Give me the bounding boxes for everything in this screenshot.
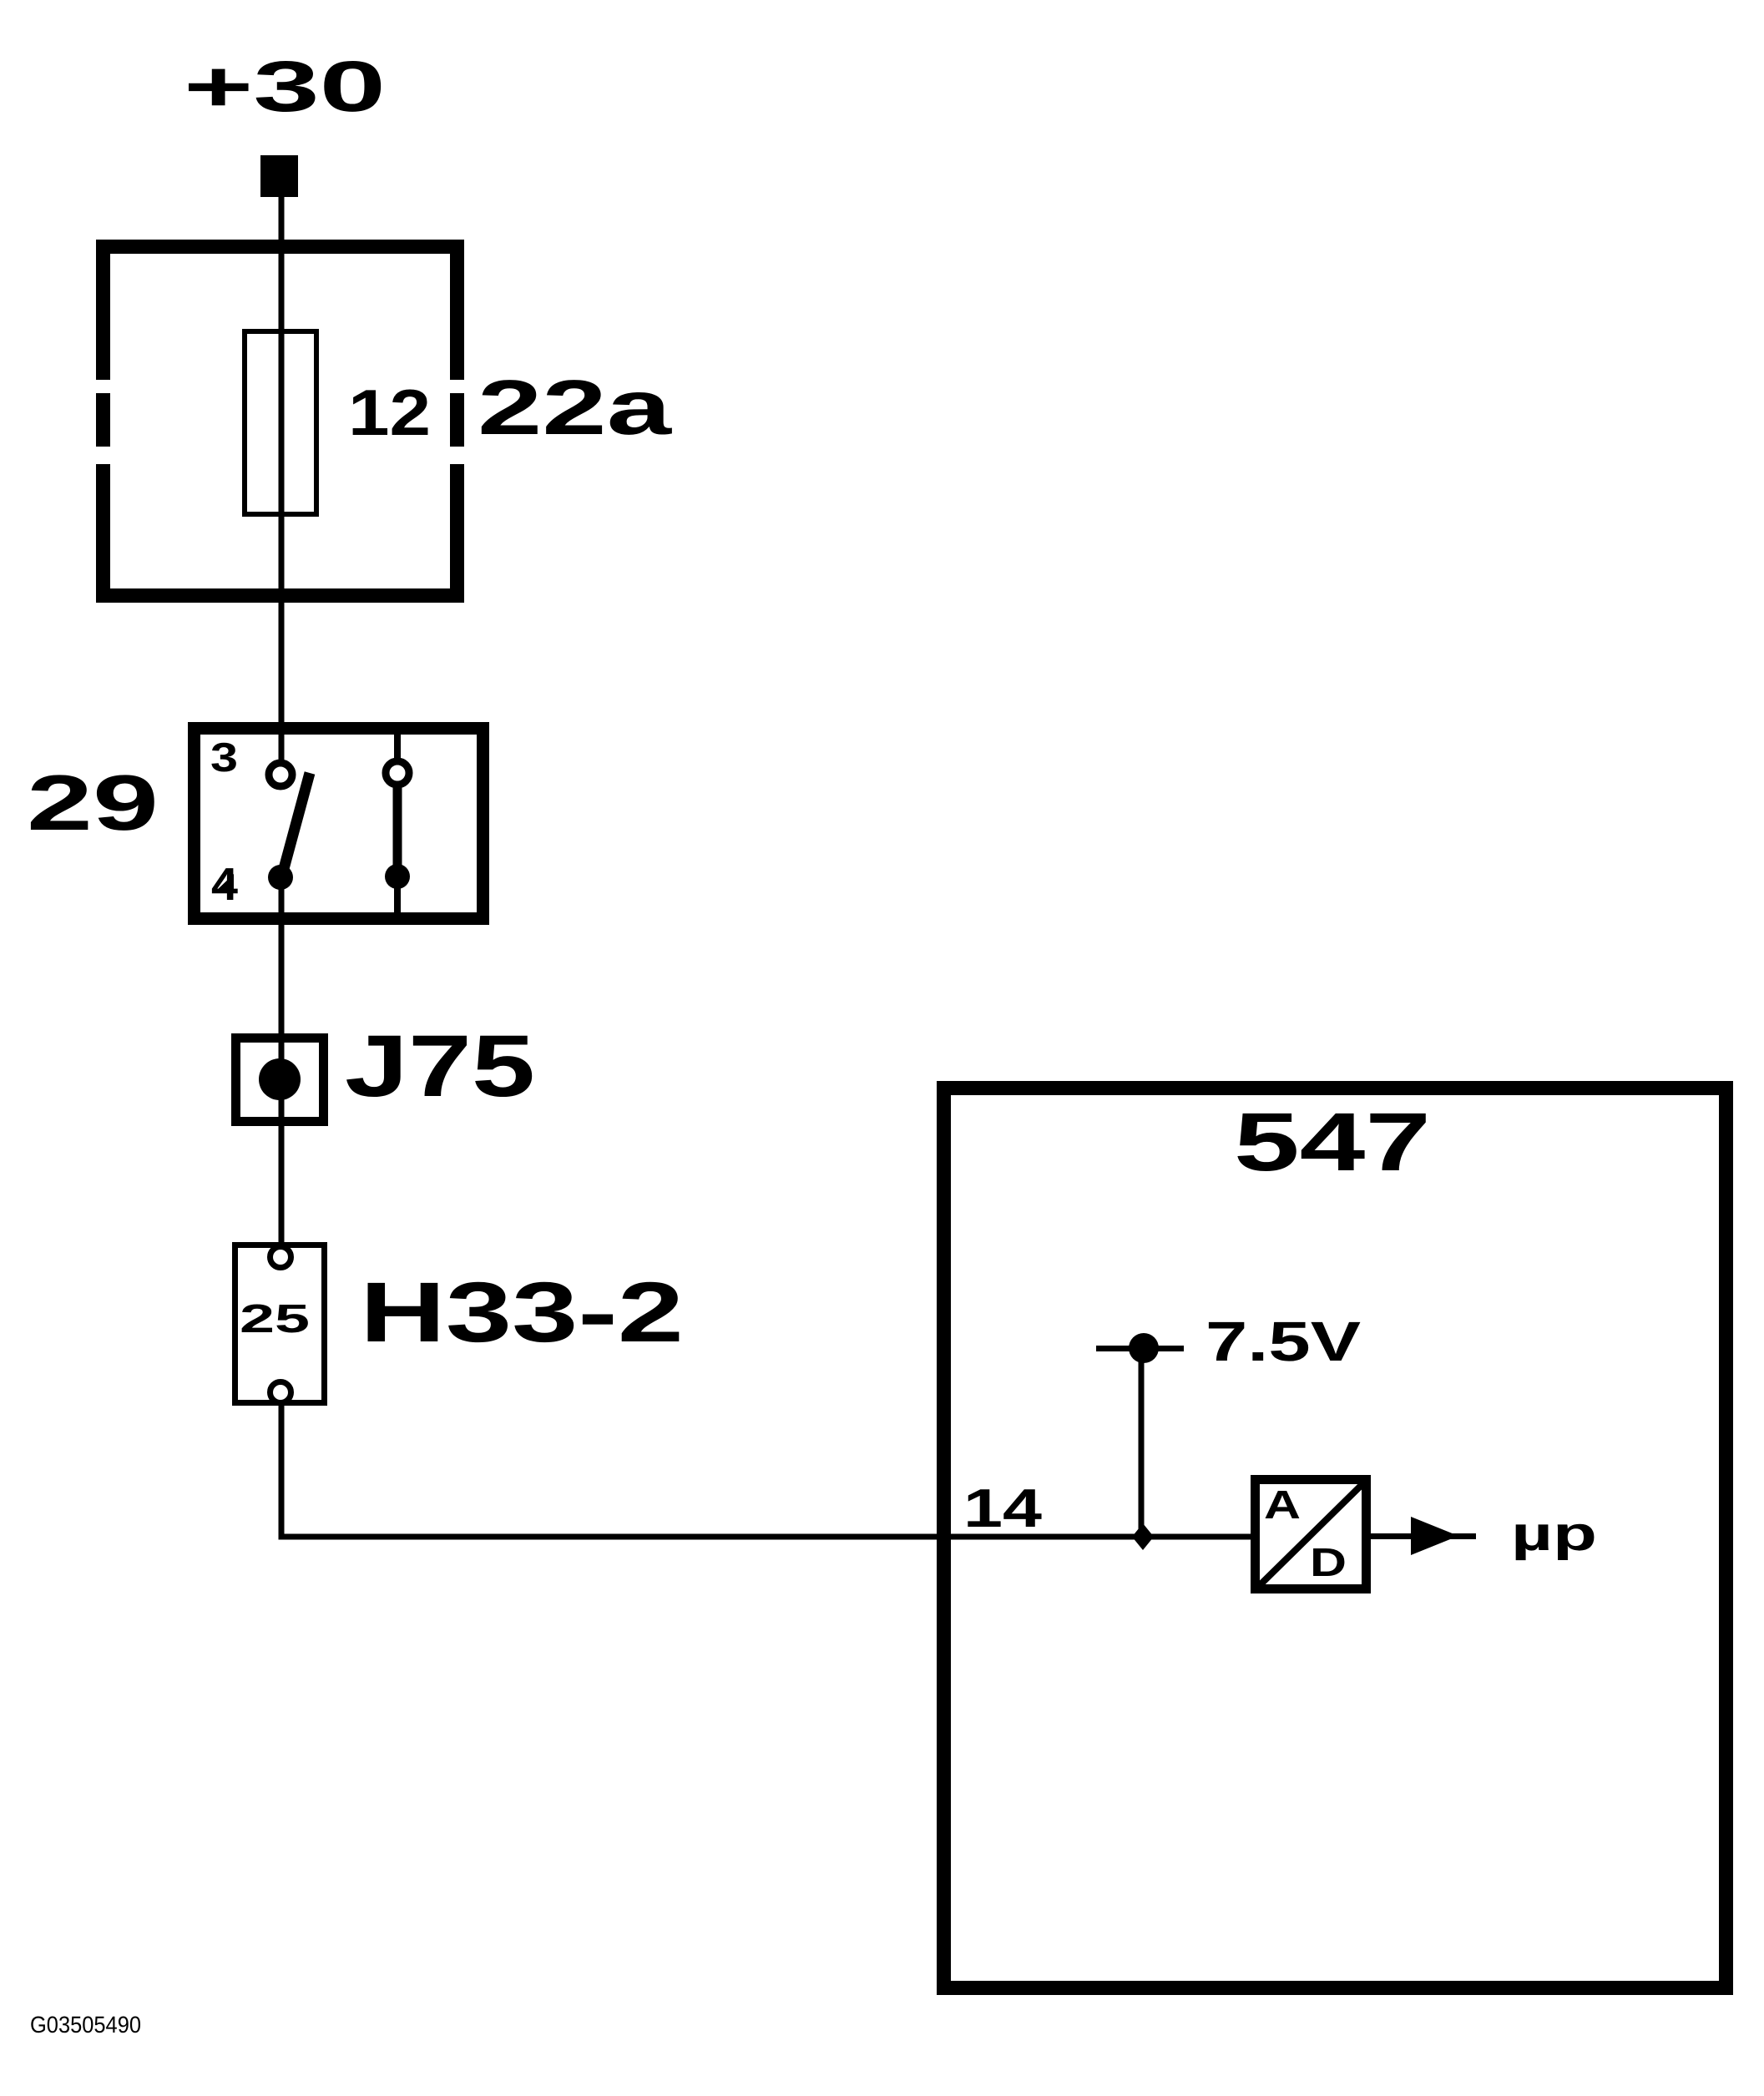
svg-text:25: 25	[240, 1297, 310, 1341]
second pole bottom stub wire	[394, 876, 401, 918]
7.5V supply stub wire	[1096, 1346, 1184, 1351]
svg-text:H33-2: H33-2	[360, 1265, 684, 1360]
svg-text:J75: J75	[345, 1018, 535, 1115]
wire from +30 terminal down into fuse box	[279, 197, 285, 334]
junction diamond on input wire	[1132, 1523, 1154, 1550]
wire through fuse box to switch box 29	[279, 509, 285, 735]
A/D diagonal line	[1258, 1481, 1366, 1587]
switch contact 4 filled dot	[268, 865, 293, 890]
svg-text:29: 29	[27, 759, 159, 846]
wire from H33-2 to control unit pin 14	[281, 1404, 1252, 1537]
junction box J75	[236, 1038, 324, 1122]
battery terminal square	[260, 155, 298, 197]
svg-text:D: D	[1310, 1541, 1347, 1585]
fuse 12 symbol	[245, 331, 316, 514]
switch lever	[282, 773, 310, 875]
junction dot J75	[259, 1058, 301, 1100]
terminal circle bottom of H33-2	[270, 1382, 291, 1403]
arrowhead	[1411, 1517, 1458, 1555]
switch contact 3 open circle	[269, 763, 292, 786]
output wire from A/D	[1371, 1533, 1476, 1539]
svg-text:G03505490: G03505490	[30, 2012, 141, 2038]
wire into switch contact 3	[279, 728, 285, 761]
svg-text:A: A	[1264, 1483, 1301, 1528]
wire from contact 4 down to H33-2	[279, 877, 285, 1247]
A/D converter box	[1256, 1480, 1367, 1589]
second pole filled dot	[385, 864, 410, 889]
pull-up wire from 7.5V to input node	[1139, 1348, 1145, 1537]
svg-text:547: 547	[1234, 1095, 1431, 1188]
fuse box 22a dashed enclosure	[96, 240, 464, 603]
second pole top stub wire	[394, 728, 401, 763]
second pole link wire	[393, 785, 402, 876]
svg-text:22a: 22a	[478, 364, 673, 451]
svg-text:µp: µp	[1511, 1507, 1597, 1561]
svg-text:3: 3	[210, 735, 238, 780]
control unit box 547	[944, 1088, 1726, 1988]
small artifact triangle left of pin 4	[215, 874, 234, 891]
terminal circle top of H33-2	[270, 1247, 291, 1268]
second pole open circle	[386, 761, 409, 785]
svg-text:7.5V: 7.5V	[1205, 1311, 1361, 1373]
svg-text:+30: +30	[184, 47, 386, 127]
svg-text:12: 12	[348, 376, 431, 449]
element H33-2 box	[235, 1245, 325, 1403]
7.5V supply dot	[1129, 1333, 1159, 1363]
svg-text:14: 14	[963, 1477, 1042, 1538]
wire segment through fuse symbol	[279, 329, 285, 517]
switch box 29	[195, 729, 483, 919]
